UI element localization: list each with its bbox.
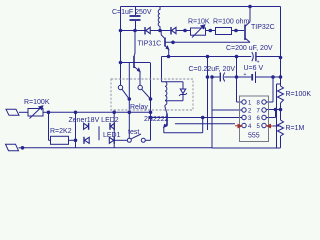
- svg-text:2N2222: 2N2222: [144, 116, 169, 123]
- svg-text:R=100K: R=100K: [24, 99, 50, 106]
- svg-text:C=200 uF, 20V: C=200 uF, 20V: [226, 45, 273, 52]
- svg-text:C=0.22uF, 20V: C=0.22uF, 20V: [189, 66, 236, 73]
- svg-text:555: 555: [248, 133, 260, 140]
- svg-text:TIP32C: TIP32C: [251, 24, 275, 31]
- svg-text:+: +: [244, 72, 247, 78]
- svg-text:LED1: LED1: [103, 132, 121, 139]
- svg-text:Relay: Relay: [130, 104, 148, 111]
- svg-text:R=2K2: R=2K2: [50, 128, 72, 135]
- svg-text:test: test: [128, 129, 139, 136]
- svg-text:R=100 ohm: R=100 ohm: [213, 19, 250, 26]
- svg-text:Zener18V LED2: Zener18V LED2: [69, 117, 119, 124]
- svg-text:TIP31C: TIP31C: [138, 41, 162, 48]
- svg-text:R=100K: R=100K: [286, 91, 312, 98]
- svg-text:R=10K: R=10K: [188, 19, 210, 26]
- svg-text:+: +: [257, 60, 260, 66]
- svg-text:U=6 V: U=6 V: [244, 65, 264, 72]
- svg-text:C=1uF 250V: C=1uF 250V: [112, 9, 152, 16]
- svg-text:R=1M: R=1M: [286, 125, 305, 132]
